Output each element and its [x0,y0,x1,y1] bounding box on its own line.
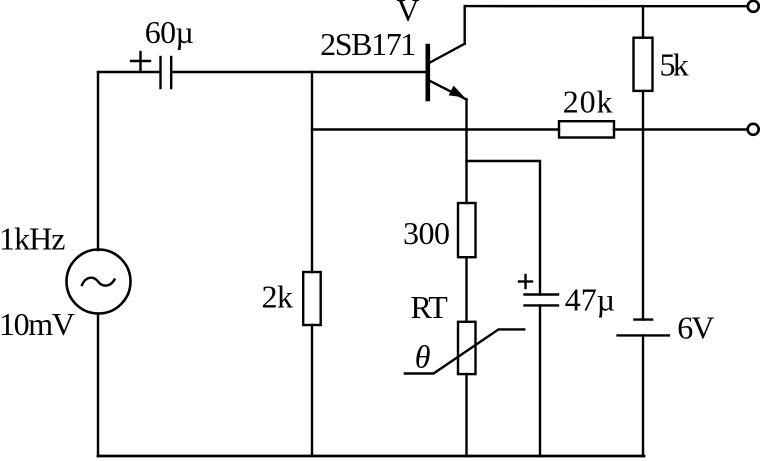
battery GB 6V long plate [618,334,669,336]
output terminal upper [748,1,759,12]
output terminal lower [748,124,759,135]
resistor R2 20k body [559,121,614,137]
capacitor C2 47µ top plate [525,293,559,295]
wire: 2k bottom to ground rail [311,325,313,456]
wire: thermistor bottom to ground rail [465,374,467,456]
svg-text:2SB171: 2SB171 [320,26,416,62]
transistor V emitter diagonal [429,81,467,100]
wire: top rail drop to 5k [642,6,644,38]
svg-text:2k: 2k [262,279,294,315]
wire: 5k bottom down to battery [642,91,644,320]
svg-text:5k: 5k [660,46,689,82]
wire: feedback rail from bias node to 20k [312,128,559,130]
svg-text:RT: RT [411,289,449,325]
wire: C1 to transistor base [171,71,426,73]
wire: C2 bottom to ground rail [539,305,541,456]
wire: collector vertical up to top rail [464,6,466,44]
polarity + of C1 [131,52,150,71]
transistor V collector diagonal [429,44,465,63]
thermistor RT body [458,322,476,374]
wire: 300 to thermistor RT [465,257,467,322]
resistor R4 300 body [458,203,476,257]
resistor R3 5k body [634,38,653,91]
capacitor C2 47µ bottom plate [525,304,559,306]
polarity + of C2 [519,275,532,288]
svg-text:V: V [396,0,419,28]
svg-text:300: 300 [403,215,450,251]
wire: battery to ground rail [642,335,644,456]
thermistor RT diagonal stroke [405,329,524,373]
wire: emitter branch to bypass capacitor C2 [467,161,541,295]
svg-text:6V: 6V [677,309,714,345]
wire: 20k to output terminal [614,128,748,130]
svg-text:20k: 20k [563,84,613,120]
battery GB 6V short plate [634,318,652,320]
wire: top-left horizontal to capacitor C1 [98,71,160,73]
svg-text:θ: θ [415,338,431,374]
AC source circle [67,250,131,314]
wire: ground rail bottom [98,455,644,458]
wire: top rail to output terminal upper [465,5,748,7]
AC source sine symbol [82,278,115,286]
wire: emitter vertical to 300 [465,100,467,204]
svg-text:60µ: 60µ [145,14,194,50]
svg-text:47µ: 47µ [565,281,615,317]
resistor R1 2k body [303,272,321,325]
capacitor C1 60µ plates [161,57,172,88]
transistor V base bar [425,46,430,99]
wire: left rail upper (source top to input node) [97,72,99,250]
emitter arrowhead [449,86,465,98]
svg-text:1kHz: 1kHz [0,221,66,257]
wire: left rail lower (source bottom to ground rail) [97,314,99,457]
wire: bias node vertical down to resistor 2k [311,72,313,272]
svg-text:10mV: 10mV [0,306,75,342]
